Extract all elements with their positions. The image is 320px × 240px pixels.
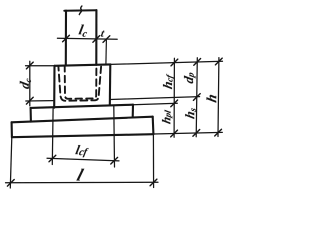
step 2 left edge [11,122,13,137]
label h_cf [163,74,174,89]
column C1 left edge [65,11,67,65]
step 2 bottom edge [12,134,154,137]
extension line l_cf right [113,106,116,167]
step 1 left edge [30,108,32,122]
step 2 (bottom slab) top edge [12,117,153,123]
dimension line d_p / h_s [196,58,197,137]
column C1 right edge [95,10,97,65]
d_c bottom extension line [26,100,53,102]
extension line from d_c to pedestal top [26,65,55,67]
column hidden edges in socket (dashed) [65,67,97,99]
tick [215,58,222,65]
tick [103,36,110,43]
break squiggle [79,6,82,15]
dimension line l [6,181,159,184]
step 2 right edge [152,117,155,134]
dimension line h_cf / h_pl [173,58,175,137]
label h [207,95,217,103]
tick [93,36,100,43]
extension line l_cf left [51,109,54,165]
tick [171,59,178,66]
pedestal left edge [53,66,55,108]
tick [7,180,14,187]
extension line for t (socket top edge) [105,39,108,64]
pedestal right edge [109,64,112,105]
extension from socket floor to d_p line [110,97,200,100]
step 1 (upper slab) top edge [31,105,133,108]
tick [26,97,33,104]
extension line l left [10,137,12,188]
label d_p [184,73,196,84]
extension line from pedestal top to h dimension [110,61,222,64]
extension from step1 top to h_cf line [133,103,177,105]
pedestal top edge [55,64,111,65]
label l_cf [75,145,88,157]
column C1 top break line [64,9,96,12]
label d_c [20,79,31,89]
label l [76,169,84,181]
tick [193,94,200,101]
tick [26,62,33,69]
label t [101,31,105,37]
dimension line d_c [29,61,31,106]
tick [150,179,157,186]
dimension line h [217,58,220,137]
tick [193,130,200,137]
label h_s [185,108,196,119]
tick [171,130,178,137]
tick [111,157,118,164]
extension line l right [152,134,154,187]
tick [171,100,178,107]
dimension line l_c and t [57,38,117,39]
dimension line l_cf [47,158,119,161]
tick [49,155,56,162]
step 1 right edge [132,105,134,118]
tick [215,129,222,136]
tick [63,35,70,42]
socket walls (dashed, hidden) [58,67,101,101]
bottom extension line to h [153,132,222,134]
tick [194,59,201,66]
label l_c [79,25,88,37]
label h_pl [162,110,172,124]
